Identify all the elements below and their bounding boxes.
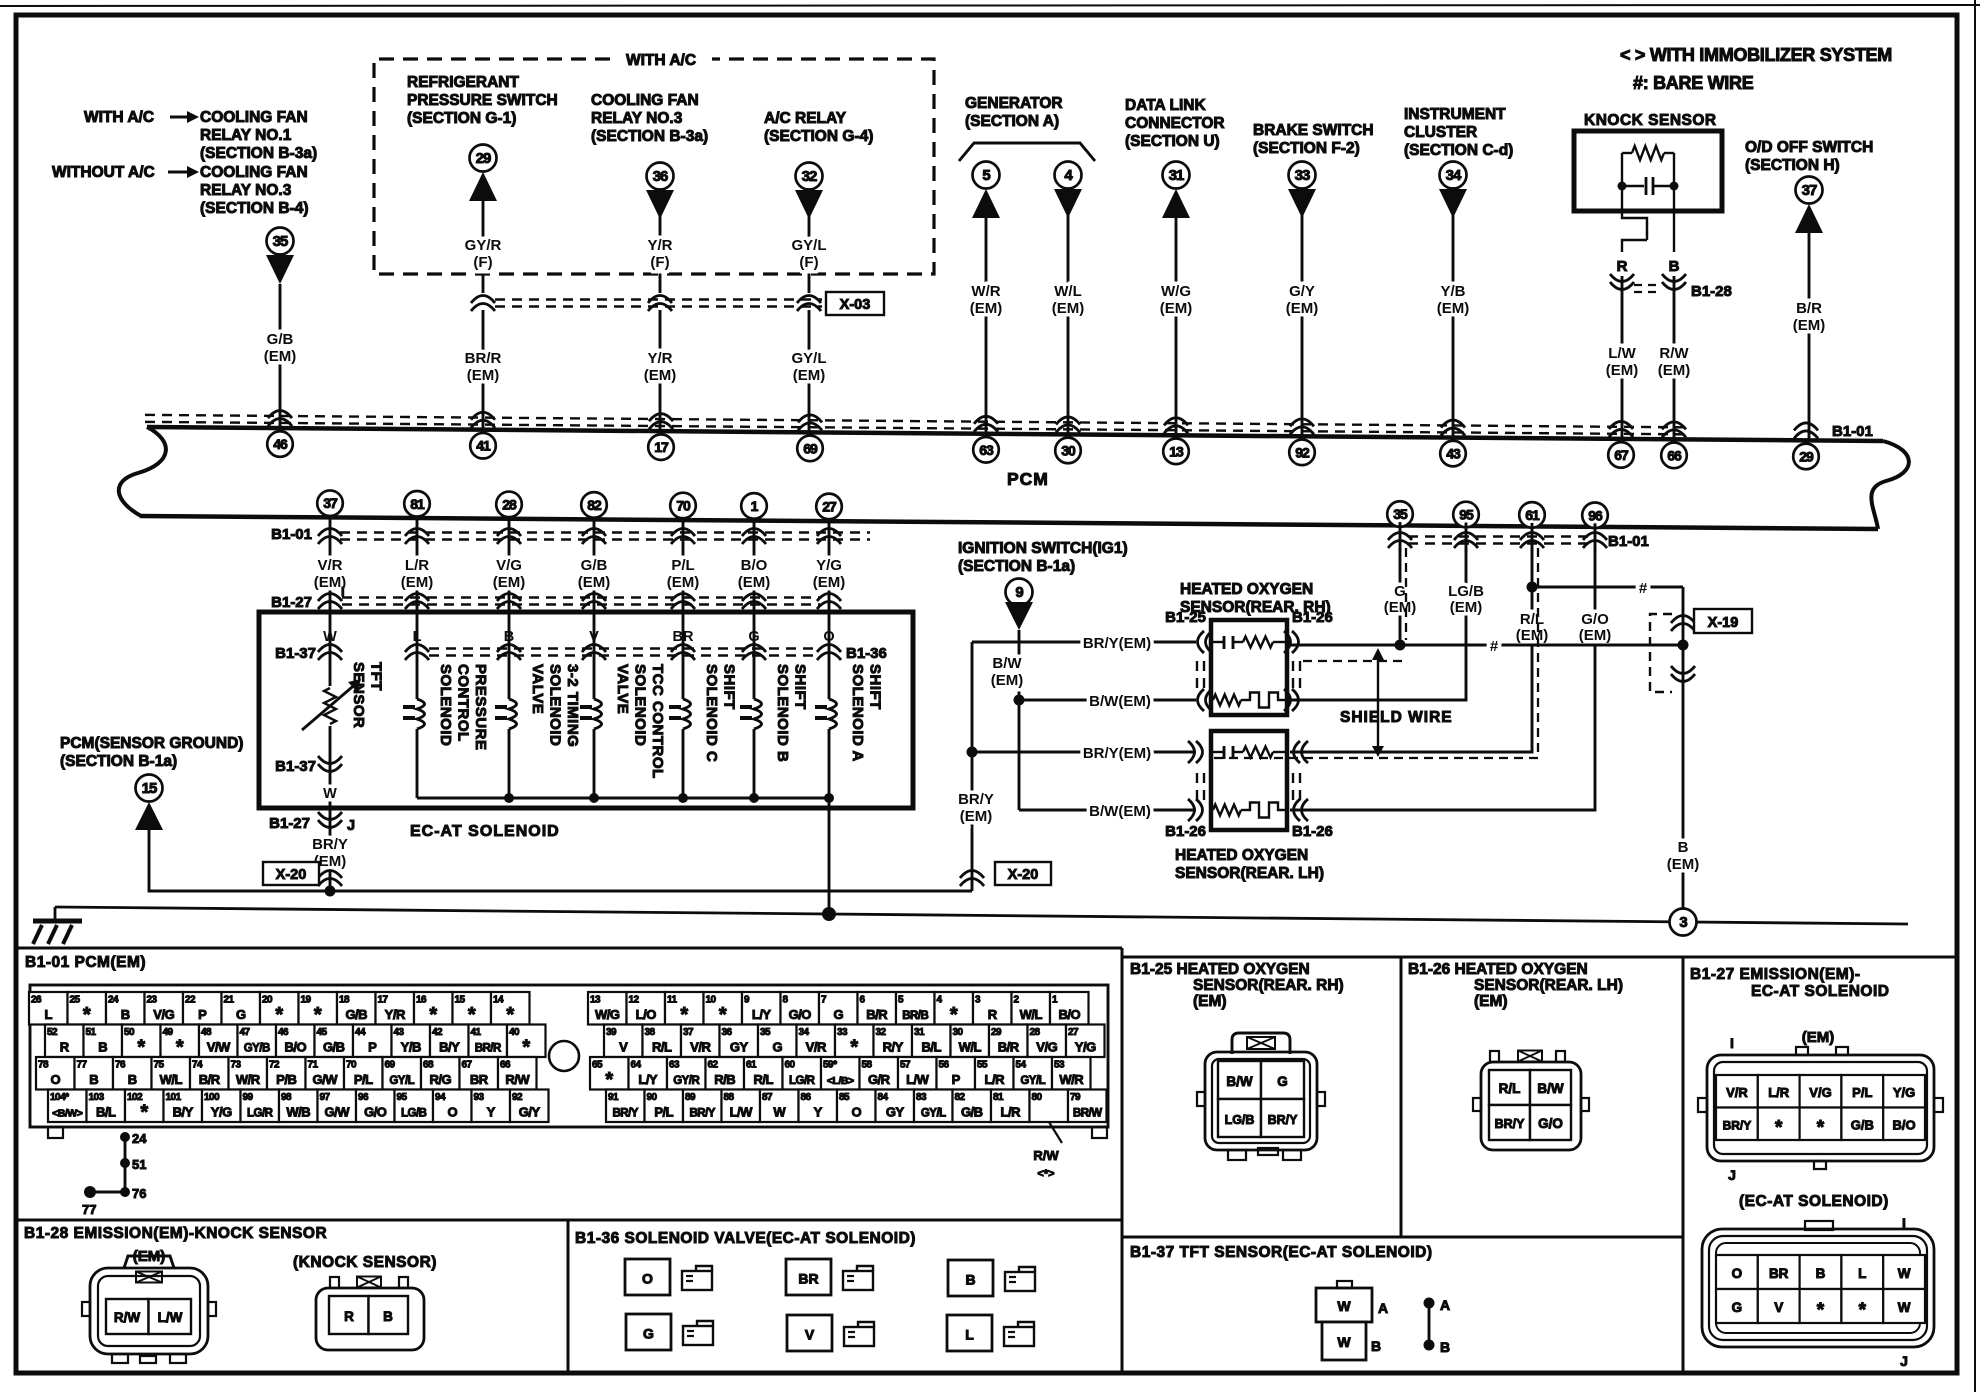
svg-text:W: W [323, 786, 337, 802]
svg-text:(EM): (EM) [793, 367, 826, 384]
svg-text:LG/B: LG/B [401, 1108, 427, 1120]
svg-text:V/W: V/W [207, 1040, 231, 1055]
divider B1-28/B1-36 row top [16, 1219, 1122, 1222]
pin 18 [337, 992, 376, 1025]
pin 28 [1028, 1025, 1067, 1058]
connector row B1-27 dashed pair [342, 596, 820, 598]
svg-text:80: 80 [1032, 1092, 1043, 1103]
pin 11 [665, 992, 704, 1025]
svg-text:36: 36 [653, 168, 668, 185]
svg-text:B/W: B/W [992, 655, 1022, 672]
svg-text:G/B: G/B [345, 1007, 367, 1022]
svg-text:42: 42 [432, 1027, 443, 1038]
pin 39 [604, 1025, 643, 1058]
pin 45 [315, 1025, 354, 1058]
bottom bus pin circles left group [317, 490, 343, 516]
svg-text:BR/Y: BR/Y [1268, 1113, 1299, 1127]
svg-text:5: 5 [982, 167, 990, 184]
wire 67 upper R [1621, 276, 1624, 439]
svg-text:L: L [965, 1327, 974, 1343]
pin 26 [29, 992, 68, 1025]
svg-text:(F): (F) [473, 254, 492, 271]
junction dot BR/Y row3 [967, 747, 978, 758]
svg-text:B: B [121, 1007, 130, 1022]
pin 81 [991, 1090, 1030, 1123]
pin 30 [951, 1025, 990, 1058]
svg-text:Y: Y [487, 1105, 496, 1120]
svg-text:BR: BR [1769, 1266, 1789, 1281]
B1-28 EM connector side bumps [82, 1302, 90, 1316]
svg-text:TFT: TFT [368, 662, 385, 691]
svg-text:(EM): (EM) [467, 367, 500, 384]
connector X-20 chevron right [960, 871, 984, 879]
svg-text:B/L: B/L [96, 1105, 116, 1120]
pin 25 [68, 992, 107, 1025]
svg-text:91: 91 [608, 1092, 619, 1103]
svg-text:95: 95 [1459, 506, 1474, 522]
svg-text:IGNITION SWITCH(IG1): IGNITION SWITCH(IG1) [958, 540, 1128, 557]
B1-27 EM connector side tabs [1698, 1098, 1707, 1112]
pin circle 3 ground [1670, 909, 1697, 936]
wires from bottom bus to B1-27 row [329, 515, 332, 612]
svg-text:(EM): (EM) [970, 300, 1003, 317]
O2 row3 BR/Y wire LH [972, 751, 1196, 754]
svg-text:G: G [1732, 1300, 1743, 1315]
pin 35 [758, 1025, 797, 1058]
pin 1 [1050, 992, 1089, 1025]
svg-text:69: 69 [803, 440, 818, 456]
pin 29 [989, 1025, 1028, 1058]
wire W below TFT [329, 756, 332, 807]
B1-37 connector box A [1316, 1288, 1372, 1322]
svg-text:B1-01: B1-01 [1832, 423, 1873, 440]
svg-text:19: 19 [301, 995, 312, 1006]
top bus pin circles [267, 431, 293, 457]
wires inside EC-AT box upper [329, 612, 332, 660]
svg-text:W/R: W/R [1059, 1072, 1084, 1087]
knock sensor connector top tabs [330, 1277, 339, 1288]
svg-text:B1-25 HEATED OXYGEN: B1-25 HEATED OXYGEN [1130, 961, 1310, 978]
pin 50 [122, 1025, 161, 1058]
B1-28 EM connector bottom tabs [112, 1354, 128, 1363]
svg-text:BR/W: BR/W [1073, 1108, 1102, 1120]
branch wire with # to X-19 top [1532, 586, 1683, 589]
shield dashed lines [1405, 548, 1407, 640]
svg-text:B1-28: B1-28 [1691, 283, 1732, 300]
pin circle 5 generator [973, 162, 1000, 189]
svg-text:88: 88 [724, 1092, 735, 1103]
B1-36 terminal G [626, 1314, 671, 1350]
pin 5 [896, 992, 935, 1025]
svg-text:SOLENOID B: SOLENOID B [774, 664, 791, 762]
wire LG/B from pin 95 [1290, 548, 1466, 700]
pin 104* [48, 1090, 87, 1123]
wire 69 lower GY/L [808, 310, 811, 433]
svg-text:31: 31 [914, 1027, 925, 1038]
svg-text:98: 98 [281, 1092, 292, 1103]
svg-text:55: 55 [977, 1060, 988, 1071]
svg-text:79: 79 [1070, 1092, 1081, 1103]
svg-text:B1-27 EMISSION(EM)-: B1-27 EMISSION(EM)- [1690, 966, 1861, 983]
svg-text:Y/G: Y/G [816, 557, 842, 574]
svg-text:BR/Y: BR/Y [1495, 1117, 1526, 1131]
pin 20 [260, 992, 299, 1025]
svg-text:(EM): (EM) [1286, 300, 1319, 317]
ignition B/W wire down [1018, 630, 1021, 810]
svg-text:GY/R: GY/R [465, 237, 502, 254]
svg-text:11: 11 [667, 995, 678, 1006]
wire 13 W/G [1175, 218, 1178, 436]
svg-text:*: * [1859, 1300, 1867, 1321]
pin 52 [45, 1025, 84, 1058]
B1-27 EC-AT pin * [1800, 1289, 1842, 1323]
wire 69 upper GY/L [808, 190, 811, 293]
knock sensor right wire [1673, 186, 1675, 252]
svg-text:R: R [1617, 258, 1628, 275]
svg-text:(EM): (EM) [1052, 300, 1085, 317]
svg-text:W: W [1898, 1266, 1911, 1281]
B1-01 pin table outer box [30, 985, 1108, 1127]
pin 85 [837, 1090, 876, 1123]
svg-text:47: 47 [240, 1027, 251, 1038]
svg-text:45: 45 [317, 1027, 328, 1038]
svg-text:L/W: L/W [906, 1072, 930, 1087]
svg-text:W/R: W/R [971, 283, 1000, 300]
pin 97 [318, 1090, 357, 1123]
svg-text:100: 100 [204, 1092, 220, 1103]
chassis ground symbol [54, 907, 57, 920]
svg-text:RELAY NO.1: RELAY NO.1 [200, 127, 292, 144]
svg-text:1: 1 [751, 498, 759, 514]
svg-text:(SECTION U): (SECTION U) [1125, 133, 1220, 150]
B1-26 connector body [1481, 1062, 1581, 1150]
svg-text:X-20: X-20 [1008, 867, 1039, 883]
svg-text:G/O: G/O [364, 1105, 387, 1120]
B1-25 connector pins [1218, 1061, 1261, 1099]
svg-text:DATA LINK: DATA LINK [1125, 97, 1206, 114]
pin 38 [643, 1025, 682, 1058]
svg-text:Y/B: Y/B [401, 1040, 421, 1055]
divider top of connector panels right [1122, 956, 1957, 959]
svg-text:J: J [347, 818, 355, 834]
svg-text:10: 10 [706, 995, 717, 1006]
svg-text:48: 48 [201, 1027, 212, 1038]
svg-text:76: 76 [115, 1060, 126, 1071]
svg-text:86: 86 [801, 1092, 812, 1103]
B1-27 EM pin P/L [1841, 1075, 1883, 1108]
arrow up on wire 13 [1162, 189, 1190, 218]
svg-text:B: B [1371, 1338, 1381, 1354]
pin 87 [760, 1090, 799, 1123]
svg-text:B: B [965, 1272, 975, 1288]
svg-text:WITH A/C: WITH A/C [626, 52, 696, 69]
pin 3 [973, 992, 1012, 1025]
svg-text:G/Y: G/Y [519, 1105, 541, 1120]
pin 70 [344, 1057, 383, 1090]
svg-text:L/Y: L/Y [638, 1072, 658, 1087]
pin circle 36 cooling fan relay no.3 [647, 163, 674, 190]
svg-text:G: G [1277, 1074, 1288, 1089]
connector row B1-01 bottom-left chevrons [318, 529, 342, 537]
pin 75 [152, 1057, 191, 1090]
pin 79 [1068, 1090, 1107, 1123]
svg-text:(SECTION G-4): (SECTION G-4) [764, 128, 873, 145]
svg-text:B/R: B/R [1796, 300, 1822, 317]
pin 68 [421, 1057, 460, 1090]
junction dot R/L branch [1527, 582, 1538, 593]
B1-37 connector box B [1322, 1322, 1366, 1360]
svg-text:28: 28 [1030, 1027, 1041, 1038]
arrow up on wire 29 [1795, 204, 1823, 233]
svg-text:3-2 TIMING: 3-2 TIMING [564, 664, 581, 747]
svg-text:27: 27 [1068, 1027, 1079, 1038]
svg-text:13: 13 [590, 995, 601, 1006]
B1-27 EM pin L/R [1758, 1075, 1800, 1108]
PCM bus right break squiggle [1871, 441, 1909, 529]
pin 58 [860, 1057, 899, 1090]
wire G/O from pin 96 [1290, 548, 1595, 810]
svg-text:B/R: B/R [199, 1072, 221, 1087]
svg-text:GY/B: GY/B [244, 1043, 270, 1055]
pin 69 [383, 1057, 422, 1090]
chassis ground line [55, 907, 1908, 924]
B1-36 terminal BR [786, 1259, 831, 1295]
svg-text:G/B: G/B [961, 1105, 983, 1120]
svg-text:34: 34 [1446, 167, 1462, 184]
svg-text:SOLENOID: SOLENOID [547, 664, 564, 746]
svg-text:COOLING FAN: COOLING FAN [200, 164, 308, 181]
svg-text:W/R: W/R [236, 1072, 261, 1087]
connector row B1-36 dashed pair [429, 647, 820, 649]
svg-text:SOLENOID C: SOLENOID C [703, 664, 720, 762]
svg-text:R/Y: R/Y [883, 1040, 904, 1055]
svg-text:69: 69 [385, 1060, 396, 1071]
svg-text:GY/L: GY/L [921, 1108, 946, 1120]
B1-01 center circle [549, 1041, 579, 1071]
svg-text:BR/Y: BR/Y [312, 836, 348, 853]
svg-text:O: O [447, 1105, 457, 1120]
svg-text:(EM): (EM) [493, 574, 526, 591]
connector row X-03 dashed pair [495, 298, 822, 300]
svg-text:56: 56 [939, 1060, 950, 1071]
arrow down on wire 92 [1288, 189, 1316, 218]
svg-text:*: * [850, 1037, 858, 1059]
pin 19 [299, 992, 338, 1025]
svg-text:BR/R: BR/R [465, 350, 502, 367]
svg-text:W/G: W/G [1161, 283, 1191, 300]
pin 73 [229, 1057, 268, 1090]
solenoid coil on wire x=417 [416, 660, 419, 699]
B1-36 terminal O [625, 1259, 670, 1295]
knock sensor connector body [316, 1288, 424, 1350]
B1-26 connector pins [1489, 1070, 1530, 1105]
pin circle 9 ignition switch [1006, 579, 1033, 606]
pin 22 [183, 992, 222, 1025]
svg-text:B1-25: B1-25 [1165, 609, 1206, 626]
svg-text:G: G [236, 1007, 246, 1022]
svg-text:94: 94 [435, 1092, 446, 1103]
svg-text:(EM): (EM) [1516, 627, 1549, 644]
svg-text:103: 103 [89, 1092, 105, 1103]
RH sensor box [1211, 620, 1287, 715]
arrow down on ignition wire [1005, 602, 1033, 630]
B1-27 EC-AT connector top tab [1805, 1221, 1833, 1230]
solenoid coil on wire x=594 [593, 660, 596, 699]
svg-text:(EM): (EM) [991, 672, 1024, 689]
pin circle 15 PCM sensor ground [136, 775, 163, 802]
svg-text:BR/R: BR/R [475, 1043, 502, 1055]
B1-27 EM connector bottom tab [1814, 1161, 1826, 1169]
svg-text:LG/R: LG/R [789, 1075, 816, 1087]
pin 100 [202, 1090, 241, 1123]
svg-text:63: 63 [979, 442, 994, 458]
arrow down on wire 43 [1439, 189, 1467, 218]
svg-text:89: 89 [685, 1092, 696, 1103]
svg-text:28: 28 [502, 496, 517, 512]
svg-text:82: 82 [955, 1092, 966, 1103]
pin 48 [199, 1025, 238, 1058]
svg-text:BR: BR [470, 1072, 489, 1087]
svg-text:L/R: L/R [1768, 1085, 1790, 1100]
wire 63 W/R [985, 218, 988, 434]
divider vertical x=1401 [1400, 957, 1403, 1237]
svg-text:(EM): (EM) [1384, 599, 1417, 616]
svg-text:O: O [851, 1105, 861, 1120]
pin 78 [36, 1057, 75, 1090]
svg-text:84: 84 [878, 1092, 889, 1103]
svg-text:61: 61 [746, 1060, 757, 1071]
B1-28 EM connector pins R/W L/W [106, 1299, 149, 1334]
svg-text:INSTRUMENT: INSTRUMENT [1404, 106, 1506, 123]
B1-27 EM pin V/G [1800, 1075, 1842, 1108]
svg-text:B/Y: B/Y [173, 1105, 194, 1120]
svg-text:(EM): (EM) [1667, 856, 1700, 873]
svg-text:35: 35 [273, 233, 288, 250]
svg-text:(EM): (EM) [1160, 300, 1193, 317]
svg-text:L/W: L/W [730, 1105, 754, 1120]
B1-25 connector bottom tabs [1228, 1150, 1246, 1160]
knock sensor left wire jog [1622, 186, 1647, 240]
X-19 vertical wire [1682, 587, 1685, 909]
svg-text:CONNECTOR: CONNECTOR [1125, 115, 1225, 132]
svg-text:BR/B: BR/B [902, 1010, 928, 1022]
svg-text:J: J [1900, 1353, 1908, 1369]
svg-text:B/O: B/O [1893, 1118, 1916, 1133]
svg-text:76: 76 [132, 1186, 146, 1201]
svg-text:REFRIGERANT: REFRIGERANT [407, 74, 519, 91]
connector X-20 box label left [263, 862, 319, 885]
pin 91 [606, 1090, 645, 1123]
B1-27 EC-AT pin W [1883, 1255, 1925, 1289]
svg-text:(SECTION B-1a): (SECTION B-1a) [60, 753, 177, 770]
svg-text:*: * [680, 1004, 688, 1026]
svg-text:(EM): (EM) [644, 367, 677, 384]
pin 12 [627, 992, 666, 1025]
B1-27 EM pin Y/G [1883, 1075, 1925, 1108]
connector row B1-01 top dashed pair [145, 415, 1683, 434]
svg-text:R/B: R/B [714, 1072, 735, 1087]
arrow down on wire 46 [266, 255, 294, 284]
pin 82 [953, 1090, 992, 1123]
divider top of B1-01 panel [16, 947, 1122, 950]
svg-text:43: 43 [394, 1027, 405, 1038]
svg-text:BRAKE SWITCH: BRAKE SWITCH [1253, 122, 1374, 139]
svg-text:COOLING FAN: COOLING FAN [591, 92, 699, 109]
svg-text:W/B: W/B [286, 1105, 310, 1120]
arrow down on wire 17 [646, 190, 674, 219]
svg-text:70: 70 [676, 497, 691, 513]
pin 56 [937, 1057, 976, 1090]
svg-text:SOLENOID A: SOLENOID A [849, 664, 866, 762]
svg-text:B: B [383, 1309, 393, 1324]
pin circle 4 generator [1055, 162, 1082, 189]
svg-text:51: 51 [86, 1027, 97, 1038]
wire 41 lower BR/R [482, 310, 485, 430]
svg-text:(EM): (EM) [1579, 627, 1612, 644]
solenoid coil on wire x=754 [753, 660, 756, 699]
B1-26 connector side bumps [1473, 1098, 1481, 1111]
svg-text:WITH A/C: WITH A/C [84, 109, 154, 126]
svg-text:G/O: G/O [1538, 1116, 1563, 1131]
svg-text:92: 92 [1295, 444, 1310, 460]
pin 44 [353, 1025, 392, 1058]
svg-text:B1-36: B1-36 [846, 645, 887, 662]
pin circle 35 cooling fan relay [267, 228, 294, 255]
svg-text:P: P [198, 1007, 207, 1022]
svg-text:17: 17 [378, 995, 389, 1006]
svg-text:38: 38 [645, 1027, 656, 1038]
svg-text:B1-01: B1-01 [271, 526, 312, 543]
svg-text:B: B [1816, 1266, 1826, 1281]
svg-text:SENSOR(REAR. RH): SENSOR(REAR. RH) [1193, 977, 1344, 994]
svg-text:23: 23 [147, 995, 158, 1006]
pin 63 [667, 1057, 706, 1090]
svg-text:B1-37: B1-37 [275, 645, 316, 662]
svg-text:R/L: R/L [1499, 1081, 1521, 1096]
pin 10 [704, 992, 743, 1025]
svg-text:37: 37 [323, 495, 338, 511]
EC-AT ground rail inside box [417, 797, 829, 800]
pin 94 [433, 1090, 472, 1123]
svg-text:W/L: W/L [160, 1072, 183, 1087]
svg-text:46: 46 [278, 1027, 289, 1038]
svg-text:P/B: P/B [276, 1072, 296, 1087]
svg-text:W/G: W/G [595, 1007, 620, 1022]
svg-text:77: 77 [82, 1202, 96, 1217]
svg-text:17: 17 [654, 439, 669, 455]
svg-text:LG/B: LG/B [1448, 583, 1484, 600]
svg-text:L/R: L/R [405, 557, 429, 574]
pin 55 [975, 1057, 1014, 1090]
svg-text:Y/G: Y/G [1075, 1040, 1096, 1055]
svg-text:BR/Y: BR/Y [613, 1108, 639, 1120]
svg-text:GY: GY [886, 1105, 905, 1120]
arrow with A/C [170, 116, 192, 119]
solenoid coil on wire x=683 [682, 660, 685, 699]
svg-text:B/R: B/R [998, 1040, 1020, 1055]
pin 34 [797, 1025, 836, 1058]
svg-text:SENSOR: SENSOR [350, 662, 367, 728]
pin 62 [706, 1057, 745, 1090]
knock sensor connector pins R B [329, 1296, 369, 1334]
pin 24 [106, 992, 145, 1025]
svg-text:<B/W>: <B/W> [52, 1108, 83, 1120]
svg-text:B/O: B/O [284, 1040, 306, 1055]
divider B1-37 top [1122, 1236, 1683, 1239]
svg-text:L/W: L/W [158, 1310, 183, 1325]
svg-text:B1-27: B1-27 [271, 594, 312, 611]
svg-text:64: 64 [631, 1060, 642, 1071]
